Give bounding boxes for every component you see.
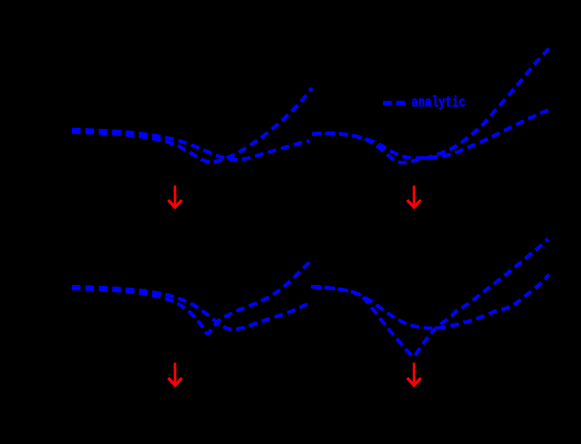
svg-text:analytic: analytic [412,95,466,112]
arrow top-left [168,186,182,208]
curve top panel period1 steep analytic branch [72,88,312,162]
curve top panel period2 gentle branch [313,109,551,158]
arrow bottom-right [407,363,421,386]
curve bottom panel period1 gentle branch [72,287,309,330]
curve top panel period1 gentle branch [72,130,309,160]
curve top panel period2 steep branch [312,47,551,163]
arrow bottom-left [168,363,182,386]
curve bottom panel period1 steep branch [72,262,310,334]
arrow top-right [407,186,421,208]
legend dash sample [383,101,406,105]
curve bottom panel period2 deep-V branch [311,239,548,357]
curve bottom panel period2 gentle branch [313,275,549,329]
